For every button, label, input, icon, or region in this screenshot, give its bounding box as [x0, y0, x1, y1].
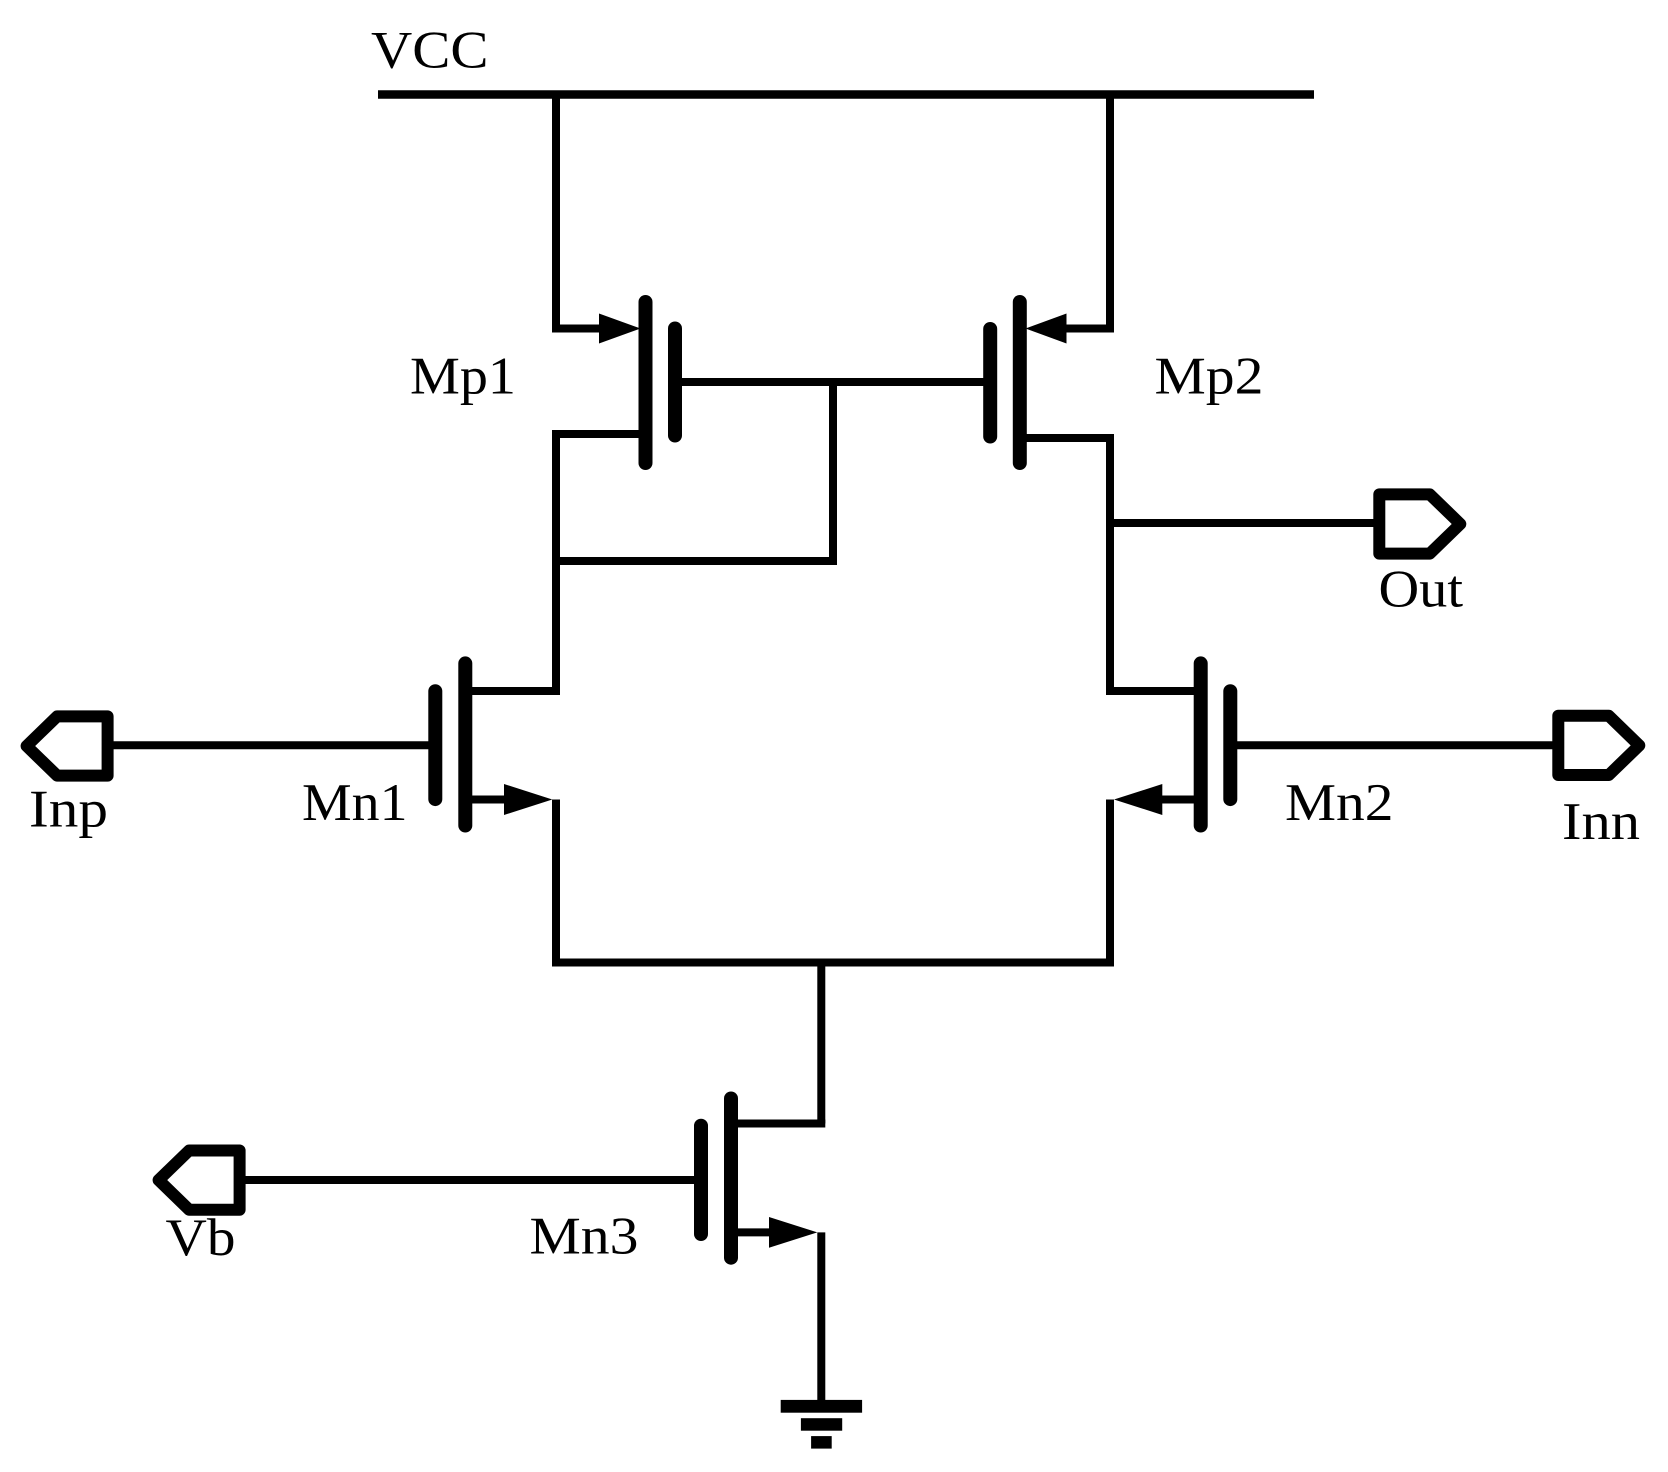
svg-text:Mn1: Mn1	[302, 774, 408, 832]
wire Mp2 drain to Mn2 drain	[1026, 438, 1194, 691]
svg-text:Inn: Inn	[1562, 793, 1640, 851]
transistor Mn1 (NMOS)	[435, 663, 552, 825]
wire Mn2 source to tail node	[1106, 800, 1114, 963]
wire Mn3 drain stub	[738, 1120, 825, 1128]
transistor Mn2 (NMOS)	[1114, 663, 1230, 825]
VCC power rail	[378, 90, 1314, 99]
transistor Mp2 (PMOS)	[990, 302, 1066, 463]
wire Inp port to Mn1 gate	[112, 741, 429, 749]
wire Mn1 source to tail node	[552, 800, 560, 963]
svg-text:VCC: VCC	[371, 22, 489, 80]
transistor Mn3 (NMOS)	[701, 1099, 817, 1258]
wire diode connection: Mp1 drain node to PMOS gate node	[552, 382, 833, 561]
svg-text:Mn2: Mn2	[1285, 774, 1394, 832]
port Inp	[27, 716, 108, 775]
port Out	[1379, 494, 1460, 553]
port Vb	[159, 1151, 240, 1210]
wire Mp1 drain to Mn1 drain	[472, 434, 639, 691]
wire Mn2 gate to Inn port	[1237, 741, 1553, 749]
wire VCC rail to Mp1 source	[556, 91, 604, 329]
wire Mn3 source to ground	[817, 1232, 825, 1403]
svg-text:Inp: Inp	[29, 781, 108, 839]
svg-text:Mn3: Mn3	[530, 1208, 639, 1266]
wire tail node to Mn3 drain	[817, 959, 825, 1124]
ground	[781, 1400, 862, 1449]
wire VCC rail to Mp2 source	[1062, 91, 1110, 329]
transistor Mp1 (PMOS)	[599, 302, 675, 463]
wire output node: Mp2 drain to Out port	[1110, 519, 1374, 527]
port Inn	[1558, 716, 1639, 775]
svg-text:Out: Out	[1379, 561, 1464, 619]
svg-text:Vb: Vb	[166, 1209, 236, 1267]
wire tail bus	[552, 959, 1114, 967]
wire Vb port to Mn3 gate	[244, 1176, 694, 1184]
svg-text:Mp2: Mp2	[1155, 347, 1264, 405]
svg-text:Mp1: Mp1	[410, 347, 516, 405]
wire Mp1 gate to Mp2 gate	[681, 378, 984, 386]
